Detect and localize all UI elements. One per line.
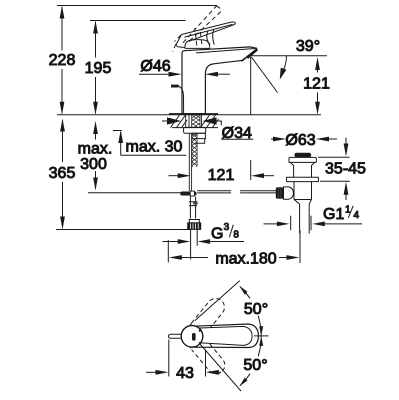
- upper 50deg arc: [258, 316, 261, 336]
- lever blade solid: [176, 35, 185, 48]
- countertop hatching right: [201, 115, 219, 128]
- svg-text:43: 43: [176, 365, 194, 382]
- handle inner lever: [197, 326, 253, 345]
- angle arc 39deg: [282, 56, 287, 74]
- countertop cross-section top edge: [169, 113, 218, 115]
- counter reference line: [57, 114, 321, 116]
- 50deg leg upper diagonal: [195, 281, 240, 321]
- faucet body outline: [182, 47, 257, 114]
- supply pipe below nut: [191, 229, 198, 260]
- svg-text:50°: 50°: [243, 357, 267, 374]
- drain lever clamp knob: [276, 187, 284, 198]
- svg-text:4: 4: [354, 210, 360, 221]
- horizontal reference line for 39deg: [251, 55, 327, 57]
- label G1 1/4: [323, 205, 360, 224]
- svg-text:max. 30: max. 30: [126, 138, 183, 155]
- 50deg leg lower diagonal: [200, 344, 241, 391]
- spout underside: [205, 60, 243, 113]
- svg-text:39°: 39°: [296, 38, 320, 55]
- threaded rod with knurl: [192, 133, 197, 166]
- svg-text:Ø63: Ø63: [285, 132, 315, 149]
- svg-text:300: 300: [80, 156, 107, 173]
- svg-text:50°: 50°: [244, 301, 268, 318]
- rod guide clip: [193, 201, 197, 204]
- handle black bar detail: [192, 333, 196, 341]
- pop-up rod knob behind faucet: [171, 85, 179, 88]
- svg-text:121: 121: [303, 76, 330, 93]
- drain bottom bevel: [294, 200, 312, 204]
- extension line lever raised max height: [57, 5, 217, 7]
- spout tip extension line lower part: [250, 160, 252, 180]
- extension line lever rest height: [90, 20, 186, 22]
- faucet body bottom: [182, 113, 205, 115]
- hole diameter arrows at deck: [162, 120, 176, 122]
- countertop cross-section bottom edge: [172, 127, 218, 129]
- svg-text:G1: G1: [323, 206, 344, 223]
- drain washer ring: [287, 177, 319, 181]
- drain lever boss: [284, 187, 294, 199]
- countertop hatching left: [171, 115, 188, 128]
- dimension 228: [60, 6, 65, 115]
- label G3/8: [211, 222, 239, 243]
- drain tailpipe: [300, 204, 310, 234]
- drain lower body: [294, 182, 312, 200]
- mounting step nuts: [192, 133, 205, 143]
- svg-text:195: 195: [85, 60, 112, 77]
- handle pivot circle: [181, 326, 203, 348]
- pop-up horizontal rod: [198, 191, 231, 193]
- lever cap dome: [185, 40, 210, 48]
- dimension 43: [146, 340, 221, 377]
- dimension 365: [60, 119, 65, 230]
- svg-text:35-45: 35-45: [325, 161, 366, 178]
- mounting washer: [183, 127, 205, 133]
- lever neck: [207, 31, 210, 45]
- svg-text:365: 365: [49, 165, 76, 182]
- dashed handle rotated up 50deg: [186, 295, 228, 341]
- handle grip outline: [192, 324, 259, 348]
- svg-text:max.180: max.180: [215, 251, 276, 268]
- svg-text:G: G: [211, 226, 223, 243]
- rod clamp joint: [180, 192, 196, 196]
- extension line max.300 bottom: [88, 192, 181, 194]
- threaded shank below deck: [186, 115, 202, 128]
- dimension 121 vertical: [315, 57, 320, 115]
- spout inner top line: [196, 48, 257, 53]
- dimension 195: [93, 21, 98, 115]
- dimension max.300: [93, 121, 98, 191]
- spray direction leader line: [251, 57, 277, 93]
- handle centerline: [254, 335, 269, 337]
- extension line 365 bottom: [56, 229, 190, 231]
- rod lower tube: [190, 197, 195, 219]
- lower 50deg arc: [258, 336, 261, 356]
- handle pin left: [168, 334, 182, 338]
- pop-up rod behind shank: [189, 133, 191, 191]
- svg-text:8: 8: [233, 230, 239, 241]
- lever raised dashed: [173, 6, 222, 52]
- aerator black wedge: [245, 48, 258, 59]
- supply hose collar: [189, 220, 199, 223]
- svg-text:228: 228: [49, 52, 76, 69]
- svg-text:max.: max.: [78, 140, 113, 157]
- handle detail dots: [199, 329, 201, 331]
- svg-text:121: 121: [208, 167, 235, 184]
- G3/8 ribbed nut: [188, 223, 201, 230]
- svg-text:3: 3: [224, 222, 230, 233]
- dashed handle rotated down 50deg: [186, 332, 228, 378]
- drain pop-up knob: [294, 153, 311, 157]
- svg-text:Ø46: Ø46: [140, 58, 170, 75]
- dimension max.30 countertop thickness: [113, 130, 186, 155]
- spout tip extension line down to counter: [250, 57, 252, 115]
- drain flange: [289, 157, 316, 162]
- drain upper body: [294, 165, 312, 177]
